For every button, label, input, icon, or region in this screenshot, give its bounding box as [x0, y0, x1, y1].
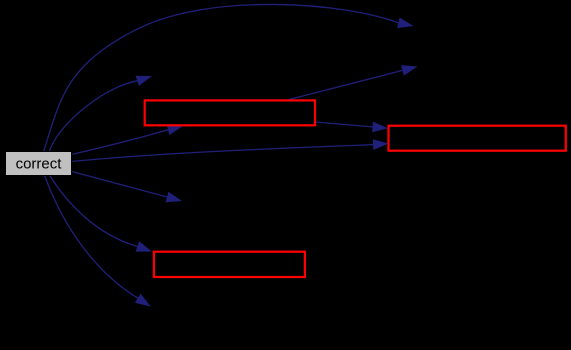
node box2 (red)	[154, 252, 305, 277]
arrowhead box1->node above right	[401, 65, 417, 76]
edge correct->node5	[72, 172, 167, 197]
node box1 (red)	[145, 100, 315, 125]
arrowhead correct->top node	[397, 18, 413, 29]
edge box1->node above right	[289, 70, 403, 99]
edge correct->top node	[44, 4, 399, 151]
edge box1->rightbox (upper)	[315, 122, 373, 127]
arrowhead correct->rightbox lower	[373, 139, 389, 150]
arrowhead correct->box2	[136, 241, 152, 251]
svg-text:correct: correct	[16, 156, 63, 173]
edge correct->box2	[50, 176, 138, 247]
edge correct->rightbox (lower)	[72, 145, 373, 162]
arrowhead correct->node2	[136, 76, 152, 86]
node rightbox (red)	[389, 126, 566, 151]
arrowhead correct->box1	[167, 125, 183, 136]
edge correct->box1	[72, 130, 168, 155]
arrowhead box1->rightbox upper	[372, 122, 388, 133]
arrowhead correct->node5	[166, 192, 182, 202]
edge correct->bottom node	[45, 176, 138, 299]
arrowhead correct->bottom node	[135, 294, 151, 307]
edge correct->node2	[50, 81, 138, 151]
node correct (gray box)	[6, 152, 72, 176]
